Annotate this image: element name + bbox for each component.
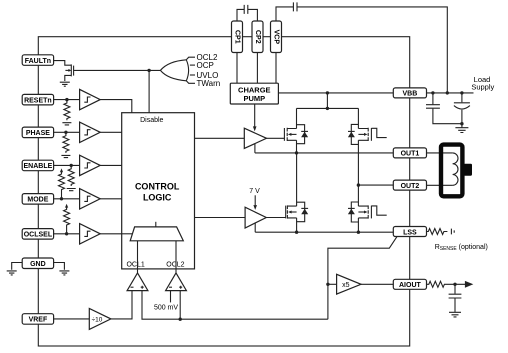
op-amp OR gate (fault sources): [160, 57, 195, 83]
svg-text:LOGIC: LOGIC: [143, 192, 172, 202]
resistor OCLSEL pullup with supply arrow: [64, 204, 70, 234]
pin OUT1: [393, 148, 426, 158]
wire high-side driver reference to OUT1: [254, 144, 256, 153]
wire OUT1 to load: [427, 152, 453, 154]
svg-text:PHASE: PHASE: [26, 130, 50, 137]
pin LSS: [393, 227, 426, 237]
node PHASE junction: [64, 131, 67, 134]
svg-text:VCP: VCP: [273, 30, 280, 45]
node OUT1 junction: [295, 151, 298, 154]
svg-text:RSENSE (optional): RSENSE (optional): [435, 244, 488, 252]
node 7V label: [249, 188, 260, 195]
transistor low-side right MOSFET: [358, 185, 386, 232]
resistor RESETn pulldown: [64, 100, 70, 121]
control logic block: [122, 113, 195, 269]
ground PHASE pulldown: [61, 155, 70, 157]
wire ENABLE to buffer: [54, 164, 80, 166]
svg-text:MODE: MODE: [27, 197, 48, 204]
pin VBB: [393, 88, 426, 98]
wire MODE buffer to control logic: [100, 198, 122, 200]
resistor PHASE pulldown: [63, 132, 69, 153]
wire charge pump to VBB rail: [278, 92, 393, 94]
svg-text:÷10: ÷10: [92, 316, 103, 323]
op-amp RESETn schmitt buffer: [80, 89, 101, 109]
ground RESETn pulldown: [62, 123, 71, 125]
node VBB rail junction: [326, 91, 329, 94]
ground GND right: [59, 271, 69, 275]
wire ENABLE buffer to control logic: [100, 164, 122, 166]
node x5 input junction: [326, 283, 329, 286]
node OCP label: [197, 61, 214, 70]
svg-text:RESETn: RESETn: [24, 97, 52, 104]
op-amp low-side gate driver: [245, 207, 266, 228]
wire low-side driver reference to LSS: [254, 223, 256, 232]
wire x5 amp input stub: [328, 283, 337, 285]
wire RESETn buffer to control logic top: [100, 100, 132, 113]
node ENABLE junction: [70, 164, 73, 167]
pin CP2: [252, 21, 263, 53]
node MODE junction: [60, 197, 63, 200]
wire mux to OCL1 output: [137, 241, 139, 269]
wire OCLSEL select into mux: [122, 233, 133, 235]
pin OCLSEL: [22, 229, 53, 240]
wire 7V supply arrow into low-side driver: [253, 195, 257, 210]
diode body diode of low-side left MOSFET: [297, 202, 309, 222]
op-amp divide-by-10: [89, 308, 111, 329]
wire OCL1 comparator output to control logic: [137, 269, 139, 273]
wire PHASE buffer to control logic: [100, 131, 122, 133]
node supply cap ground junction: [460, 122, 463, 125]
ground AIOUT filter: [449, 312, 461, 317]
wire control logic to low-side driver: [195, 217, 246, 219]
resistor MODE pullup with supply arrow: [59, 168, 65, 198]
resistor ENABLE pulldown: [68, 165, 74, 186]
op-amp x5 sense amplifier: [337, 274, 361, 294]
svg-text:x5: x5: [342, 282, 350, 289]
diode body diode of high-side left MOSFET: [297, 125, 309, 144]
node VCP cap junction: [446, 91, 449, 94]
svg-text:GND: GND: [30, 261, 46, 268]
pin VCP: [271, 21, 282, 53]
wire RESETn to buffer: [54, 99, 80, 101]
svg-text:Disable: Disable: [140, 117, 163, 124]
resistor AIOUT filter resistor: [427, 281, 466, 287]
node comparator plus junction: [179, 318, 182, 321]
pin PHASE: [22, 127, 53, 138]
wire OCL2 comparator output to control logic: [175, 269, 177, 273]
pin CP1: [232, 21, 243, 53]
pin MODE: [22, 194, 53, 205]
wire disable net down to control logic: [148, 70, 150, 112]
transistor high-side right MOSFET: [358, 108, 386, 185]
pin FAULTn: [22, 55, 53, 66]
node LSS junction left: [295, 231, 298, 234]
capacitor VCP reservoir capacitor to VBB: [276, 2, 447, 93]
pin RESETn: [22, 94, 53, 105]
node RESETn junction: [65, 98, 68, 101]
ground supply capacitors: [455, 124, 468, 133]
wire OCL2 comparator plus input: [179, 291, 181, 320]
svg-text:OUT1: OUT1: [401, 151, 420, 158]
wire VCP to charge pump: [275, 53, 277, 84]
node OUT2 junction: [357, 183, 360, 186]
capacitor VBB bulk electrolytic capacitor: [454, 93, 470, 124]
ground ENABLE pulldown: [67, 189, 76, 191]
wire GND right stub: [54, 263, 65, 270]
diode body diode of high-side right MOSFET: [348, 124, 359, 144]
svg-text:CP1: CP1: [234, 30, 241, 44]
svg-text:Supply: Supply: [471, 83, 494, 92]
pin VREF: [22, 314, 53, 325]
svg-text:7 V: 7 V: [249, 188, 260, 195]
svg-text:TWarn: TWarn: [197, 79, 221, 88]
wire OCLSEL buffer to mux select: [100, 233, 133, 235]
inductor load winding: [453, 153, 458, 185]
wire OUT1 net: [255, 152, 393, 154]
transistor FAULT MOSFET: [65, 64, 74, 81]
wire AIOUT output arrow: [465, 281, 473, 288]
wire OUT2 net: [358, 184, 393, 186]
wire CP1 to charge pump: [236, 53, 238, 84]
wire high-side driver to left MOSFET gate: [267, 137, 285, 139]
wire gate of FAULT MOSFET to OR gate output: [74, 69, 161, 71]
motor load frame: [441, 145, 472, 197]
svg-text:ENABLE: ENABLE: [24, 163, 53, 170]
transistor low-side left MOSFET: [286, 153, 297, 232]
svg-text:PUMP: PUMP: [243, 94, 265, 103]
node TWarn label: [197, 79, 221, 88]
capacitor CP1-CP2 pump capacitor: [237, 5, 257, 21]
svg-text:CP2: CP2: [254, 30, 261, 44]
wire VREF to divider: [54, 318, 89, 320]
node VBB cap junction 2: [460, 91, 463, 94]
pin GND: [22, 258, 53, 269]
pin AIOUT: [393, 279, 426, 289]
wire OCL2 comparator minus to 500mV: [170, 291, 172, 303]
wire GND left stub: [12, 263, 23, 270]
pin OUT2: [393, 180, 426, 190]
wire comparator plus net: [142, 291, 328, 320]
svg-text:LSS: LSS: [403, 229, 417, 236]
wire FAULTn to open-drain MOSFET: [54, 61, 72, 66]
node bridge rail junction: [326, 107, 329, 110]
wire low-side driver to left MOSFET gate: [266, 217, 285, 219]
node 500 mV label: [154, 304, 178, 311]
wire MODE to buffer: [54, 198, 80, 200]
svg-text:FAULTn: FAULTn: [25, 58, 51, 65]
wire LSS sense feedback to x5 amp: [328, 237, 397, 320]
wire CP2 to charge pump: [256, 53, 258, 84]
wire control logic to high-side driver: [195, 137, 245, 139]
pin ENABLE: [22, 160, 53, 171]
wire mux to OCL2 output: [175, 241, 177, 269]
node OCL2 label: [197, 53, 218, 62]
op-amp OCL2 comparator: [166, 273, 187, 291]
ground RSENSE: [451, 229, 454, 235]
diode body diode of low-side right MOSFET: [348, 202, 359, 222]
wire LSS rail: [255, 231, 393, 233]
svg-text:OUT2: OUT2: [401, 183, 420, 190]
wire VBB external rail: [427, 92, 474, 94]
node OCLSEL junction: [65, 232, 68, 235]
svg-text:OCLSEL: OCLSEL: [24, 232, 53, 239]
svg-text:OCL1: OCL1: [126, 261, 144, 268]
block charge pump: [230, 83, 278, 104]
op-amp OCL1 comparator: [127, 273, 148, 291]
op-amp PHASE schmitt buffer: [80, 122, 101, 142]
wire charge pump to high-side driver: [253, 104, 257, 131]
wire OUT2 to load: [427, 184, 453, 186]
node RSENSE label: [435, 244, 488, 252]
node fault gate / disable junction: [147, 69, 150, 72]
op-amp OCLSEL schmitt buffer: [80, 224, 101, 244]
wire divider output to OCL1 minus input: [111, 291, 132, 319]
svg-text:VREF: VREF: [29, 317, 48, 324]
capacitor VBB bypass capacitor: [426, 93, 462, 124]
wire VBB feed to bridge rail: [326, 93, 328, 109]
ground below FAULT MOSFET: [60, 82, 70, 86]
transistor high-side left MOSFET: [284, 108, 296, 152]
wire bridge top rail: [297, 107, 359, 109]
op-amp ENABLE schmitt buffer: [80, 155, 101, 175]
svg-text:500 mV: 500 mV: [154, 304, 178, 311]
IC boundary: [38, 37, 409, 346]
ground GND left: [7, 271, 17, 275]
op-amp high-side gate driver: [244, 128, 266, 148]
svg-text:AIOUT: AIOUT: [399, 282, 422, 289]
wire x5 output to AIOUT: [361, 283, 393, 285]
wire OCLSEL to buffer: [54, 233, 80, 235]
node LSS junction right: [357, 231, 360, 234]
op-amp MODE schmitt buffer: [80, 189, 101, 209]
svg-text:OCL2: OCL2: [166, 261, 184, 268]
node UVLO label: [197, 71, 219, 80]
svg-text:CONTROL: CONTROL: [135, 181, 180, 191]
resistor RSENSE: [427, 229, 448, 235]
wire PHASE to buffer: [54, 131, 80, 133]
multiplexer OCL select mux: [130, 222, 183, 241]
node AIOUT filter junction: [453, 283, 456, 286]
capacitor AIOUT filter capacitor: [449, 284, 462, 312]
svg-text:VBB: VBB: [403, 91, 418, 98]
svg-text:OCP: OCP: [197, 61, 214, 70]
node VBB cap junction 1: [431, 91, 434, 94]
node Load Supply label: [471, 75, 494, 92]
